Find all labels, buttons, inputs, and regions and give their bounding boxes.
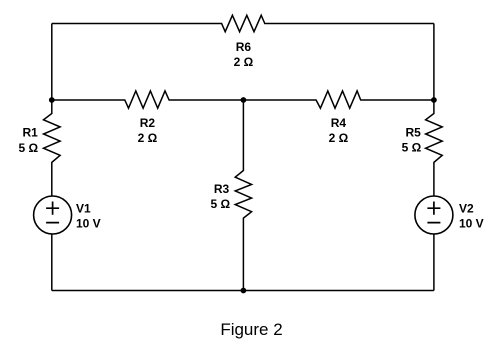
svg-text:2 Ω: 2 Ω bbox=[138, 131, 158, 145]
svg-text:R3: R3 bbox=[214, 182, 230, 196]
svg-text:5 Ω: 5 Ω bbox=[19, 141, 39, 155]
svg-text:Figure 2: Figure 2 bbox=[220, 320, 282, 339]
svg-text:R6: R6 bbox=[236, 40, 252, 54]
svg-text:R2: R2 bbox=[140, 116, 156, 130]
svg-text:5 Ω: 5 Ω bbox=[402, 141, 422, 155]
svg-text:10 V: 10 V bbox=[459, 216, 484, 230]
svg-text:V2: V2 bbox=[459, 201, 474, 215]
svg-text:R5: R5 bbox=[405, 126, 421, 140]
svg-text:R4: R4 bbox=[331, 116, 347, 130]
svg-text:2 Ω: 2 Ω bbox=[234, 55, 254, 69]
svg-text:2 Ω: 2 Ω bbox=[329, 131, 349, 145]
svg-text:10 V: 10 V bbox=[76, 216, 101, 230]
svg-text:5 Ω: 5 Ω bbox=[211, 197, 231, 211]
svg-text:V1: V1 bbox=[76, 201, 91, 215]
svg-text:R1: R1 bbox=[22, 125, 38, 139]
